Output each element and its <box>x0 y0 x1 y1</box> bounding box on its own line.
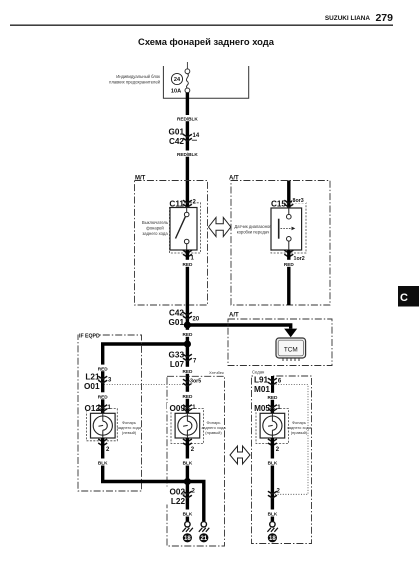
svg-text:Датчик диапазонов: Датчик диапазонов <box>234 224 272 229</box>
svg-text:коробки передач: коробки передач <box>237 230 270 235</box>
A/T label lower box <box>228 310 241 319</box>
wire label RED right column <box>264 393 281 400</box>
wire sedan box top to M05 <box>271 376 274 413</box>
wire O09 to ground junction <box>186 438 189 521</box>
wire label RED/BLK <box>177 151 199 158</box>
svg-text:(правый): (правый) <box>205 430 222 435</box>
wire label RED <box>179 392 196 399</box>
svg-text:Индивидуальный блок: Индивидуальный блок <box>116 74 160 79</box>
svg-text:M/T: M/T <box>135 176 146 182</box>
connector L91/M01 pin 6 <box>253 375 282 395</box>
sensor C15 dashed outline <box>271 203 306 253</box>
svg-text:8or3: 8or3 <box>293 198 304 204</box>
wire label RED <box>179 260 196 267</box>
wire label RED <box>179 367 196 374</box>
header rule <box>10 24 393 26</box>
svg-text:BLK: BLK <box>268 461 278 466</box>
ground number 21 <box>199 533 208 542</box>
wire branch left <box>103 344 188 413</box>
svg-text:BLK: BLK <box>183 512 193 517</box>
svg-text:M01: M01 <box>254 385 270 394</box>
ground number 18 right <box>268 533 277 542</box>
wire label BLK lower right <box>264 510 280 517</box>
connector below O12 pin 2 <box>98 439 110 453</box>
svg-text:G33: G33 <box>169 351 185 360</box>
wire label BLK left <box>95 459 111 466</box>
svg-text:18: 18 <box>269 536 276 542</box>
ground terminal 21 <box>199 522 210 532</box>
connector O09 pin 1 <box>167 403 196 413</box>
M05 lamp label <box>287 420 312 435</box>
double arrow hatchback sedan <box>230 446 250 464</box>
switch C11 dashed outline <box>170 203 201 253</box>
svg-text:Седан: Седан <box>252 370 265 375</box>
wire M05 to ground <box>271 438 274 521</box>
double arrow M/T A/T <box>209 218 231 237</box>
wire label BLK right <box>264 459 280 466</box>
wire label RED left column upper <box>94 365 111 372</box>
svg-text:RED: RED <box>98 394 109 399</box>
svg-text:21: 21 <box>200 536 207 542</box>
svg-text:плавких предохранителей: плавких предохранителей <box>109 80 160 85</box>
reverse light switch C11 body <box>170 208 197 251</box>
wire C15 to A/T box bottom <box>287 250 290 305</box>
svg-text:279: 279 <box>375 12 393 24</box>
svg-text:RED/BLK: RED/BLK <box>177 152 198 157</box>
svg-text:RED: RED <box>182 262 193 267</box>
svg-text:IF EQPD: IF EQPD <box>79 334 100 340</box>
wire label BLK middle <box>179 459 195 466</box>
connector 3or5 <box>183 377 204 386</box>
connector below C11 pin 1 <box>183 250 195 261</box>
svg-text:24: 24 <box>174 77 181 83</box>
svg-text:Хэтчбек: Хэтчбек <box>209 370 224 375</box>
svg-text:RED/BLK: RED/BLK <box>177 117 198 122</box>
dotted connector link line <box>104 384 183 386</box>
reverse lamp O09 body <box>175 413 200 438</box>
svg-text:заднего хода: заднего хода <box>142 231 168 236</box>
wire label RED/BLK <box>177 115 199 122</box>
svg-text:фонарей: фонарей <box>146 226 164 231</box>
connector O02/L22 pin 2 <box>166 487 196 507</box>
wire fuse to C11 <box>186 93 189 208</box>
wire O12 to ground junction <box>103 438 188 482</box>
ground terminal 18 (right) <box>267 522 278 532</box>
O12 lamp label <box>117 420 142 435</box>
wire C11 to junctions <box>186 250 189 344</box>
wire main down to O09 <box>186 344 189 413</box>
svg-text:(правый): (правый) <box>291 430 308 435</box>
wire label RED <box>280 260 297 267</box>
connector C15 pin 8or3 <box>268 197 306 209</box>
svg-text:SUZUKI LIANA: SUZUKI LIANA <box>325 15 370 22</box>
fuse box (open-top rectangle) <box>163 66 248 98</box>
svg-text:(левый): (левый) <box>122 430 137 435</box>
sedan dash-dot box <box>252 376 312 544</box>
node ground junction <box>184 478 191 485</box>
ground terminal 18 (middle) <box>182 522 193 532</box>
svg-text:BLK: BLK <box>268 512 278 517</box>
svg-text:Схема фонарей заднего хода: Схема фонарей заднего хода <box>138 36 275 47</box>
node junction to left branch <box>184 340 191 347</box>
svg-text:BLK: BLK <box>183 461 193 466</box>
fuse box label <box>109 74 160 85</box>
page tab C <box>398 286 419 307</box>
connector lower right pin 2 <box>268 489 281 499</box>
wire branch to TCM <box>187 325 290 329</box>
svg-text:20: 20 <box>193 317 200 323</box>
connector C42/G01 pin 20 <box>163 308 200 328</box>
svg-text:O01: O01 <box>84 382 100 391</box>
connector below C15 pin 1or2 <box>284 250 304 262</box>
lamp O09 dashed outline <box>171 409 204 444</box>
connector L21/O01 pin 3 <box>81 372 112 392</box>
svg-text:RED: RED <box>182 394 193 399</box>
M/T label <box>134 173 148 182</box>
header text SUZUKI LIANA 279 <box>325 12 393 24</box>
IF EQPD label <box>79 332 101 340</box>
A/T dash-dot box (lower, TCM) <box>228 319 332 366</box>
O09 lamp label <box>201 420 226 435</box>
C11 switch label <box>142 220 169 236</box>
svg-text:C42: C42 <box>169 137 184 146</box>
M/T dash-dot box <box>135 181 208 306</box>
svg-text:14: 14 <box>193 133 200 139</box>
svg-text:A/T: A/T <box>229 313 239 319</box>
A/T label <box>228 173 241 182</box>
TCM module <box>276 338 306 361</box>
svg-text:RED: RED <box>98 366 109 371</box>
lamp O12 dashed outline <box>87 409 118 441</box>
svg-text:10A: 10A <box>171 89 181 95</box>
arrow into TCM <box>284 329 297 338</box>
connector M05 pin 1 <box>252 403 281 413</box>
svg-text:RED: RED <box>267 395 278 400</box>
wire label RED left column <box>94 392 111 399</box>
ground number 18 <box>183 533 192 542</box>
A/T dash-dot box (upper) <box>231 181 330 306</box>
IF EQPD dash-dot box <box>78 335 142 491</box>
C15 sensor label <box>234 224 272 235</box>
reverse lamp M05 body <box>260 413 285 438</box>
svg-text:RED: RED <box>284 262 295 267</box>
svg-text:TCM: TCM <box>284 347 298 354</box>
connector G33/L07 pin 7 <box>163 350 197 370</box>
node junction to TCM branch <box>184 321 191 328</box>
svg-text:3or5: 3or5 <box>190 379 201 385</box>
connector below M05 pin 2 <box>268 439 280 453</box>
connector O12 pin 1 <box>82 403 112 413</box>
svg-text:BLK: BLK <box>98 461 108 466</box>
hatchback dash-dot box <box>167 376 225 546</box>
wire label BLK lower middle <box>179 510 195 517</box>
fuse number 24 <box>171 73 182 84</box>
svg-text:18: 18 <box>184 536 191 542</box>
wire A/T box top to C15 <box>287 181 290 209</box>
connector below O09 pin 2 <box>183 439 195 453</box>
svg-text:RED: RED <box>182 332 193 337</box>
svg-text:G01: G01 <box>169 128 185 137</box>
svg-text:C42: C42 <box>169 309 184 318</box>
connector C11 pin 2 <box>166 199 197 209</box>
fuse F24 symbol <box>185 62 190 93</box>
svg-text:L21: L21 <box>85 373 100 382</box>
svg-text:A/T: A/T <box>229 176 239 182</box>
transmission range sensor C15 body <box>271 208 302 250</box>
connector G01/C42 pin 14 <box>169 128 200 147</box>
svg-text:G01: G01 <box>169 318 185 327</box>
dotted harness box right column <box>273 385 308 495</box>
svg-text:L22: L22 <box>171 497 186 506</box>
svg-text:C: C <box>400 292 408 304</box>
reverse lamp O12 body <box>91 413 116 438</box>
svg-text:Выключатель: Выключатель <box>142 220 169 225</box>
lamp M05 dashed outline <box>256 409 289 444</box>
svg-text:L91: L91 <box>254 376 269 385</box>
svg-text:RED: RED <box>182 369 193 374</box>
wire label RED <box>179 330 196 337</box>
wire branch to ground 21 <box>187 482 203 522</box>
